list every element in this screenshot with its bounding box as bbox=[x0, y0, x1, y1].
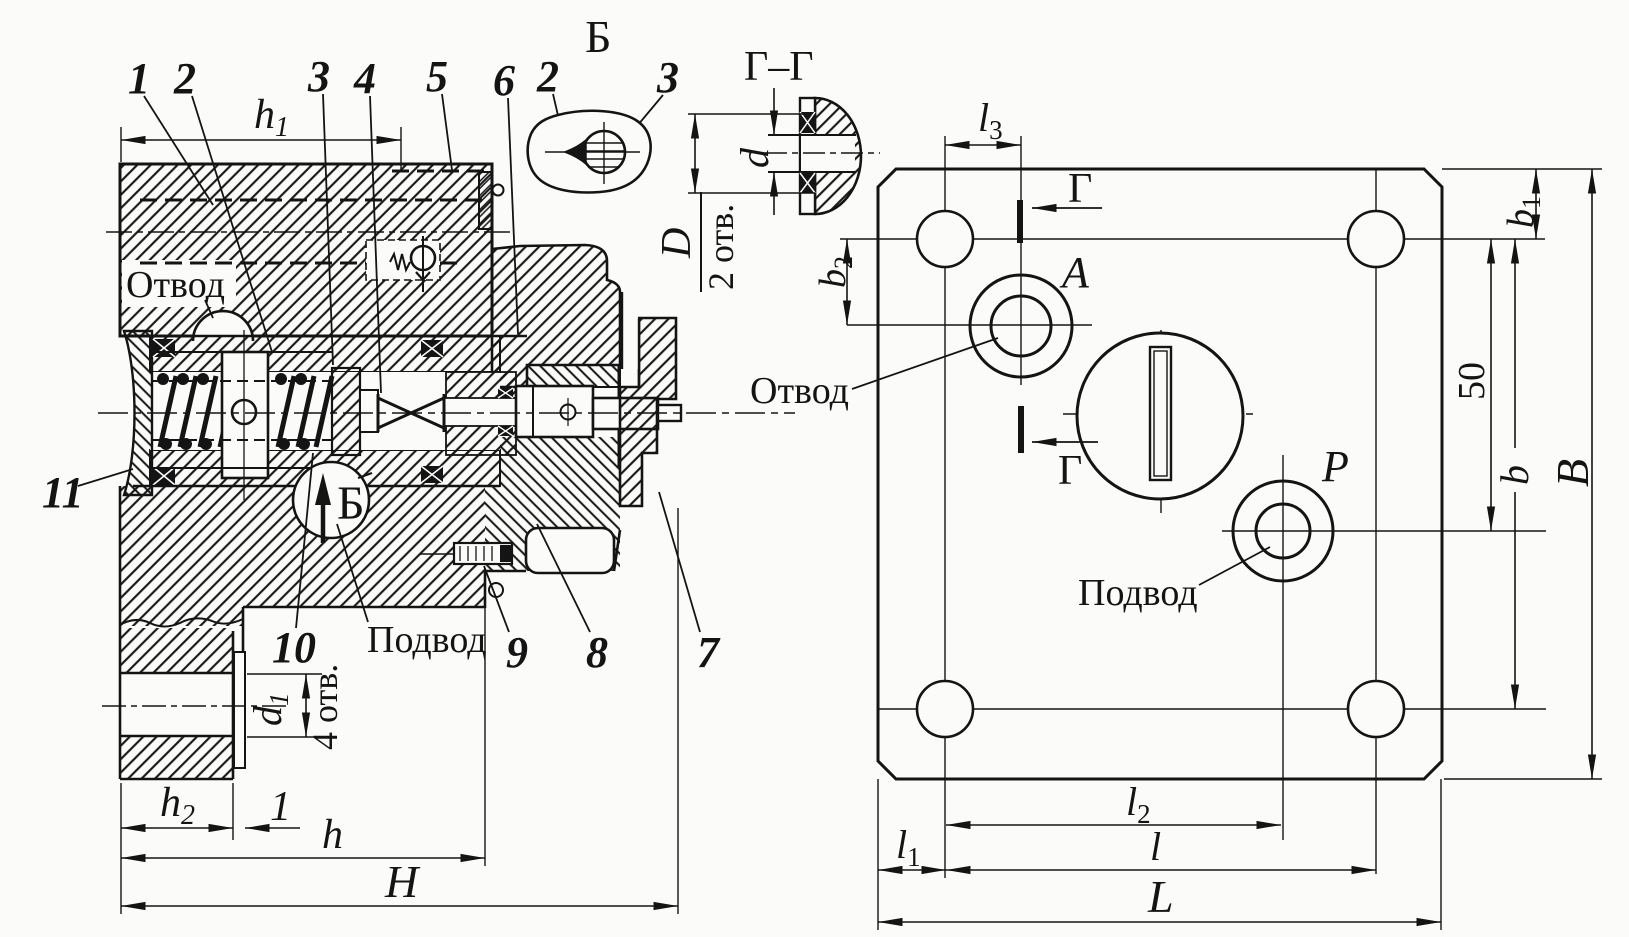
svg-text:Отвод: Отвод bbox=[126, 264, 225, 306]
svg-text:1: 1 bbox=[270, 784, 291, 830]
sleeve collars around coupler bbox=[446, 372, 516, 398]
main centerline bbox=[98, 412, 795, 414]
o-ring seals (checkered squares) bbox=[153, 339, 443, 485]
spring window bbox=[150, 372, 500, 450]
outlet cavity (Отвод) bbox=[122, 260, 236, 307]
svg-text:4 отв.: 4 отв. bbox=[305, 664, 345, 750]
svg-text:B: B bbox=[1547, 459, 1598, 487]
mechanism bottom edge bbox=[133, 485, 500, 488]
slot between head and flange bbox=[622, 292, 639, 387]
sleeve outline lines bbox=[150, 352, 332, 468]
poppet cross bbox=[378, 394, 444, 432]
svg-text:4: 4 bbox=[353, 54, 376, 103]
Подвод label (left view) bbox=[337, 524, 487, 661]
dimension L bbox=[878, 779, 1441, 930]
dimension 1 bbox=[245, 784, 300, 830]
body below shaft bbox=[500, 437, 620, 486]
svg-text:5: 5 bbox=[426, 52, 448, 101]
svg-text:50: 50 bbox=[1451, 362, 1493, 400]
mechanism top edge bbox=[133, 335, 527, 338]
dimension 50 bbox=[1451, 239, 1493, 531]
dimension b2 bbox=[812, 239, 858, 325]
dimension l bbox=[946, 824, 1376, 870]
callout numbers and leaders bbox=[78, 94, 700, 632]
port P bbox=[1233, 481, 1333, 581]
section marks Г bbox=[1020, 166, 1102, 494]
flange 7 bbox=[620, 318, 676, 506]
svg-text:Б: Б bbox=[585, 11, 611, 62]
central boss circle with slot bbox=[1077, 333, 1243, 499]
channel centerline bbox=[106, 231, 512, 233]
port A bbox=[970, 275, 1072, 377]
dimension b1 bbox=[1500, 169, 1546, 239]
lower body middle bbox=[243, 486, 485, 607]
spring 2 coils bbox=[278, 376, 332, 447]
svg-text:6: 6 bbox=[493, 56, 515, 105]
svg-text:2 отв.: 2 отв. bbox=[701, 204, 741, 290]
svg-text:2: 2 bbox=[536, 52, 559, 101]
dimension B bbox=[1442, 169, 1602, 779]
svg-text:b: b bbox=[1492, 465, 1537, 485]
dimension h bbox=[121, 607, 485, 866]
lower body right bbox=[485, 486, 620, 571]
valve seat parts bbox=[332, 368, 378, 455]
Подвод label (plate) bbox=[1078, 547, 1270, 614]
svg-text:L: L bbox=[1147, 871, 1174, 922]
svg-text:Г: Г bbox=[1068, 166, 1092, 212]
svg-text:8: 8 bbox=[586, 628, 608, 677]
svg-text:H: H bbox=[384, 856, 421, 907]
bore slot bbox=[801, 135, 855, 172]
svg-text:h: h bbox=[322, 812, 343, 858]
svg-text:Отвод: Отвод bbox=[750, 370, 849, 412]
svg-text:D: D bbox=[654, 228, 700, 259]
pocket bbox=[526, 528, 614, 573]
shaft seal squares bbox=[498, 388, 513, 436]
mechanism band: bottom hatched sleeve bbox=[150, 450, 500, 486]
head-flange junction bbox=[618, 365, 621, 398]
piston with hole bbox=[222, 330, 268, 500]
construction lines bbox=[840, 136, 1546, 878]
dimension h2 bbox=[121, 780, 233, 840]
spring 1 coils bbox=[160, 376, 236, 447]
plate outline bbox=[878, 169, 1442, 779]
mechanism band: top hatched sleeve bbox=[150, 336, 500, 372]
lower body left bbox=[120, 486, 243, 626]
valve head housing bbox=[492, 245, 620, 387]
screw plug 5 bbox=[479, 172, 504, 229]
svg-text:Г: Г bbox=[1058, 448, 1082, 494]
dimension l2 bbox=[946, 779, 1281, 829]
dimension D bbox=[688, 113, 805, 115]
hidden channel dashed lines bbox=[140, 171, 492, 263]
shaft block bbox=[516, 386, 681, 437]
svg-text:Б: Б bbox=[337, 477, 365, 530]
svg-text:3: 3 bbox=[307, 52, 330, 101]
svg-text:11: 11 bbox=[42, 468, 84, 517]
svg-text:2: 2 bbox=[173, 54, 196, 103]
dimension b bbox=[1492, 239, 1537, 709]
plate bbox=[800, 98, 815, 214]
svg-text:d: d bbox=[732, 147, 777, 168]
Отвод label (left view) bbox=[126, 264, 225, 318]
foot bbox=[102, 628, 290, 779]
dimension d bbox=[773, 88, 775, 135]
semicircular body bbox=[815, 98, 861, 214]
svg-text:A: A bbox=[1059, 248, 1090, 297]
svg-text:Подвод: Подвод bbox=[367, 619, 487, 661]
dimension d1 and 4 holes bbox=[245, 664, 345, 750]
corner holes bbox=[917, 211, 1404, 737]
dome port bbox=[193, 311, 253, 341]
svg-text:Подвод: Подвод bbox=[1078, 572, 1198, 614]
wavy break line bbox=[120, 618, 243, 626]
svg-text:3: 3 bbox=[656, 53, 679, 102]
end cup 11 bbox=[124, 331, 152, 495]
view direction circle Б bbox=[293, 462, 372, 543]
body upper block bbox=[120, 164, 492, 336]
lower body outline strokes bbox=[120, 486, 620, 779]
relief valve symbol box bbox=[366, 236, 440, 292]
dimension H bbox=[121, 508, 678, 914]
seal squares bbox=[800, 112, 815, 133]
guide dashed lines bbox=[152, 381, 332, 440]
svg-text:l: l bbox=[1150, 824, 1161, 869]
dimension l3 bbox=[945, 95, 1021, 145]
dimension h1 bbox=[121, 92, 401, 171]
svg-text:7: 7 bbox=[697, 628, 721, 677]
svg-text:1: 1 bbox=[128, 54, 150, 103]
Отвод label (plate) bbox=[750, 338, 998, 412]
svg-text:9: 9 bbox=[506, 628, 528, 677]
dimension l1 bbox=[878, 779, 946, 930]
inlet fitting 9 bbox=[420, 543, 512, 597]
svg-text:Г–Г: Г–Г bbox=[744, 44, 814, 90]
svg-text:P: P bbox=[1321, 442, 1349, 491]
